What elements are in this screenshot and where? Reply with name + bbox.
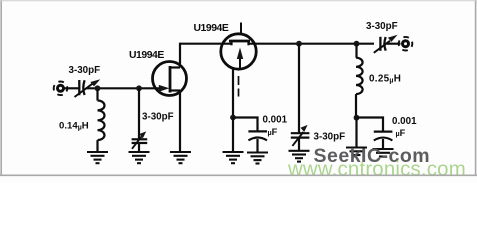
svg-text:U1994E: U1994E bbox=[129, 50, 164, 61]
capacitor C5 3-30pF (series output variable) bbox=[374, 35, 398, 53]
input connector J1 bbox=[54, 82, 68, 96]
node junction A (L1 tap) bbox=[95, 85, 101, 91]
svg-text:3-30pF: 3-30pF bbox=[314, 131, 346, 142]
wire junction E to ground bbox=[232, 118, 234, 153]
wire top rail Q2 to output cap bbox=[249, 43, 375, 45]
svg-text:3-30pF: 3-30pF bbox=[366, 21, 398, 32]
wire Q1 drain to top rail bbox=[180, 44, 232, 68]
transistor Q2 U1994E bbox=[221, 23, 256, 70]
ground C6 bbox=[373, 149, 394, 157]
ground C2 bbox=[129, 152, 150, 163]
node junction C (C4 tap) bbox=[296, 41, 302, 47]
wire junction F to C6 bbox=[357, 118, 384, 132]
node junction E (gate bypass) bbox=[230, 115, 236, 121]
svg-text:U1994E: U1994E bbox=[194, 23, 229, 34]
svg-text:www.cntronics.com: www.cntronics.com bbox=[287, 159, 466, 181]
ground C4 bbox=[289, 151, 310, 162]
svg-text:3-30pF: 3-30pF bbox=[142, 111, 174, 122]
wire Q2 gate dashed remnant bbox=[238, 76, 240, 97]
capacitor C1 3-30pF (series variable) bbox=[75, 79, 101, 97]
wire gate line to Q1 bbox=[86, 87, 159, 89]
ground L1 bbox=[87, 152, 108, 163]
svg-text:3-30pF: 3-30pF bbox=[69, 65, 101, 76]
ground L2 bbox=[346, 148, 367, 156]
wire Q1 source to ground bbox=[179, 91, 181, 153]
node junction F (C6 tap) bbox=[354, 115, 360, 121]
border frame bbox=[0, 0, 477, 176]
wire output cap to connector bbox=[387, 43, 401, 45]
transistor Q1 U1994E bbox=[153, 62, 187, 96]
svg-text:µF: µF bbox=[396, 128, 406, 138]
svg-text:µF: µF bbox=[268, 127, 278, 137]
output connector J2 bbox=[399, 37, 413, 51]
wire junction F to ground bbox=[355, 118, 357, 148]
svg-text:0.14µH: 0.14µH bbox=[59, 120, 89, 131]
ground Q2 gate bbox=[223, 152, 244, 163]
wire input line bbox=[65, 87, 80, 89]
svg-text:0.001: 0.001 bbox=[263, 114, 288, 125]
svg-text:0.25µH: 0.25µH bbox=[369, 74, 401, 85]
ground C3 bbox=[247, 153, 268, 164]
node junction D (L2 tap) bbox=[354, 41, 360, 47]
capacitor C4 3-30pF (shunt variable) bbox=[291, 44, 310, 151]
inductor L2 0.25uH bbox=[356, 44, 363, 118]
capacitor C6 0.001uF bbox=[374, 132, 393, 149]
capacitor C3 0.001uF bbox=[248, 131, 267, 152]
wire junction E to C3 bbox=[233, 118, 258, 132]
node junction B (C2 tap) bbox=[136, 85, 142, 91]
ground Q1 source bbox=[170, 152, 191, 163]
wire Q2 gate down (solid) bbox=[232, 69, 234, 118]
inductor L1 0.14uH bbox=[98, 90, 105, 152]
capacitor C2 3-30pF (shunt variable) bbox=[132, 88, 148, 152]
svg-text:0.001: 0.001 bbox=[392, 116, 417, 127]
